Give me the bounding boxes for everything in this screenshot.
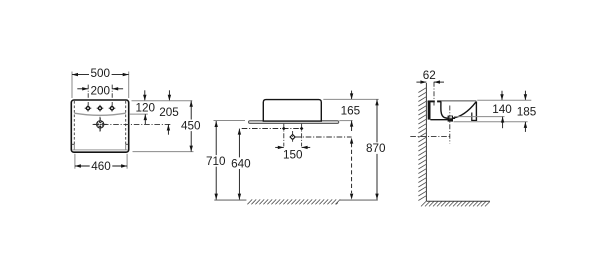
rim line (441, 100, 476, 102)
dimension 165 lower arrow (351, 121, 353, 131)
floor line left segment (214, 199, 246, 201)
dimension 140 lower arrow (502, 117, 504, 129)
right side wall hidden edge (125, 101, 127, 144)
right side wall end tick (126, 143, 129, 145)
svg-text:450: 450 (181, 119, 201, 132)
deck rim thick (428, 100, 435, 102)
dimension 870 line (376, 99, 378, 199)
top extension line right (323, 98, 378, 100)
svg-text:140: 140 (492, 103, 512, 116)
dimension 500 line (72, 74, 129, 76)
dimension 640 line (238, 129, 240, 200)
bowl front lip curve (74, 113, 125, 115)
top extension line (477, 99, 531, 101)
left side wall end tick (72, 143, 75, 145)
dimension 500 extension line left (71, 72, 73, 99)
counter extension line right (339, 120, 352, 122)
tap center line right (111, 85, 113, 106)
svg-text:165: 165 (341, 105, 361, 118)
dimension 120 lower arrow (144, 114, 146, 124)
dimension 150 arrow left (275, 146, 284, 148)
right side wall lower edge (125, 144, 127, 150)
bowl underside (430, 119, 448, 121)
front foot inner edge (471, 113, 473, 121)
left side wall lower edge (73, 144, 75, 150)
supply center line vertical left (283, 124, 285, 147)
dimension 185 upper arrow (524, 91, 526, 100)
supply center line horizontal (242, 128, 302, 130)
svg-text:150: 150 (283, 148, 303, 161)
dimension 120 upper arrow (144, 90, 146, 100)
tap center line (433, 82, 435, 106)
drain center line vertical right view (449, 106, 451, 144)
wall line (425, 83, 427, 201)
drain trap inner (449, 116, 452, 118)
drain center line horizontal (295, 136, 351, 138)
supply point left (282, 127, 286, 131)
top edge extension line right (132, 100, 193, 102)
counter slab (249, 121, 339, 124)
drain center line vertical (99, 117, 101, 132)
tap center line left (87, 85, 89, 106)
svg-text:205: 205 (159, 106, 179, 119)
drain center line vertical (292, 131, 294, 143)
drain symbol (94, 118, 107, 131)
dimension 200 arrow right (112, 88, 123, 90)
inner bottom edge line (72, 149, 127, 151)
counter extension line left (214, 120, 246, 122)
lip extension line right (129, 113, 148, 115)
dimension 140 upper arrow (501, 91, 503, 100)
dimension 460 extension line right (126, 154, 128, 169)
floor hatching right view (421, 201, 490, 206)
drain point diamond (290, 134, 295, 139)
front foot bottom (471, 119, 477, 121)
bowl depth extension line (454, 116, 505, 118)
svg-text:870: 870 (366, 142, 386, 155)
mounting bracket (428, 101, 431, 120)
basin front view (263, 100, 321, 122)
svg-text:640: 640 (231, 157, 251, 170)
svg-text:185: 185 (517, 106, 537, 119)
dimension 205 lower arrow (167, 125, 169, 135)
dimension 450 line (190, 101, 192, 152)
tap hole center (97, 105, 104, 112)
dimension 710 line (215, 121, 217, 200)
dimension 205 upper arrow (168, 90, 170, 100)
svg-text:460: 460 (91, 160, 111, 173)
dimension 460 line (75, 165, 127, 167)
bowl back inner profile (441, 102, 455, 119)
tap hole right (109, 105, 116, 112)
overall depth extension line (454, 121, 528, 123)
svg-text:500: 500 (91, 67, 111, 80)
basin outline top view (71, 100, 128, 152)
bowl sweep curve (453, 102, 477, 118)
supply center line vertical right (301, 124, 303, 147)
svg-text:120: 120 (135, 101, 155, 114)
front edge (475, 102, 477, 121)
dimension 460 extension line left (74, 154, 76, 169)
wall hatching (418, 88, 426, 201)
dimension 165 upper arrow (351, 91, 353, 99)
drain trap body (448, 116, 453, 122)
supply point right (300, 127, 304, 131)
floor line right segment (340, 199, 378, 201)
floor hatching (247, 199, 340, 204)
tap hole left (85, 105, 92, 112)
svg-text:710: 710 (206, 155, 226, 168)
drain center line horizontal right view (410, 135, 451, 137)
drain center line horizontal (93, 123, 172, 125)
dimension 200 arrow left (77, 88, 88, 90)
svg-text:200: 200 (90, 85, 110, 98)
drain height dashed dimension (351, 143, 353, 193)
dimension 62 arrow right (434, 81, 444, 83)
dimension 185 lower arrow (524, 122, 526, 132)
dimension 500 extension line right (128, 72, 130, 99)
floor line (426, 200, 490, 202)
svg-text:62: 62 (423, 69, 436, 82)
left side wall hidden edge (73, 101, 75, 144)
dimension 62 arrow left (416, 81, 426, 83)
bottom edge extension line right (133, 151, 194, 153)
dimension 150 arrow right (302, 146, 311, 148)
